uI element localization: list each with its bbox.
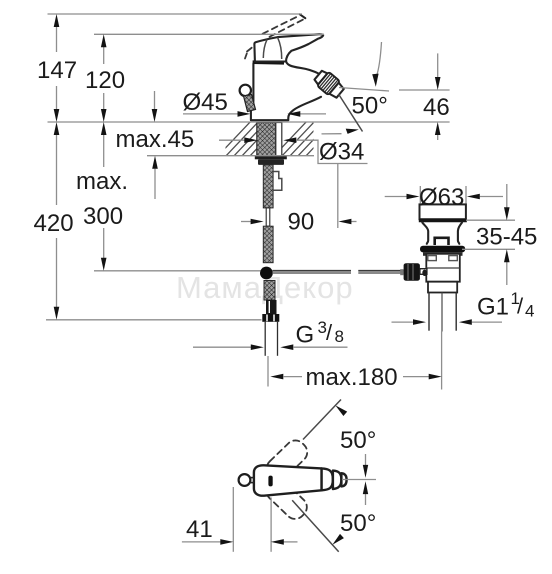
rod clamp nut — [404, 263, 420, 281]
svg-text:G: G — [296, 322, 315, 349]
dimension 90 — [241, 209, 357, 236]
cartridge collar — [253, 60, 284, 64]
svg-text:90: 90 — [288, 209, 315, 236]
svg-text:/: / — [517, 294, 524, 319]
shank smooth side — [276, 123, 282, 156]
knob shaft — [244, 95, 256, 112]
counter hatch left — [216, 120, 292, 158]
svg-text:50°: 50° — [340, 510, 376, 537]
counter bottom line — [147, 155, 314, 157]
35-45 bottom ref line — [462, 248, 515, 250]
textured rod section — [263, 226, 273, 263]
threaded shank below counter — [257, 123, 276, 156]
svg-text:8: 8 — [335, 327, 344, 346]
pivot pin into valve — [420, 269, 427, 275]
pop-up rod thin section — [266, 208, 270, 226]
handle top view body — [254, 465, 322, 495]
svg-text:35-45: 35-45 — [476, 224, 537, 251]
dimension max.45 — [116, 91, 258, 199]
dimension G1 1/4 — [392, 289, 535, 325]
dimension 50 deg (aerator) — [322, 42, 388, 134]
valve sub-band — [423, 252, 463, 255]
linkage rod left segment — [273, 271, 352, 274]
pop-up knob — [240, 85, 251, 96]
valve lower ring — [428, 282, 457, 293]
50deg lower diagonal — [292, 500, 339, 552]
lever handle — [254, 34, 323, 61]
svg-text:300: 300 — [83, 203, 123, 230]
dimension max.300 — [76, 122, 128, 271]
dimension 420 — [34, 122, 74, 320]
svg-text:/: / — [326, 320, 333, 345]
svg-text:420: 420 — [34, 210, 74, 237]
counter hatch right — [272, 120, 348, 158]
mounting washer — [255, 156, 287, 160]
linkage ball joint — [260, 267, 273, 280]
dimension Ø34 leader — [283, 137, 367, 228]
knob top view — [239, 474, 251, 486]
hose end nut G3/8 — [262, 314, 279, 322]
faucet body — [251, 64, 321, 121]
axis small arrow lower — [365, 494, 367, 506]
svg-text:41: 41 — [186, 516, 213, 543]
svg-text:G1: G1 — [477, 294, 509, 321]
handle end band 3 — [341, 473, 346, 486]
valve tailpiece — [428, 293, 430, 331]
svg-text:50°: 50° — [340, 427, 376, 454]
reference line (120 upper ref) — [94, 33, 324, 35]
axis line right — [342, 479, 376, 481]
braided hose upper — [263, 165, 273, 208]
dimension max.180 — [268, 332, 442, 392]
reference line top (147 upper ref) — [48, 13, 303, 15]
dimension 120 — [85, 34, 125, 122]
svg-text:Ø34: Ø34 — [319, 139, 364, 166]
dimension 41 — [182, 487, 298, 552]
hose side fitting — [273, 172, 282, 191]
lever raised dashed — [245, 14, 305, 58]
valve seal flange — [420, 246, 465, 253]
46 top ref line — [399, 89, 450, 91]
mounting nut — [258, 159, 284, 165]
dimension Ø63 — [385, 184, 503, 211]
countertop line — [48, 121, 450, 123]
aerator — [313, 68, 347, 100]
dimension Ø45 — [183, 89, 327, 117]
hose connector dark — [266, 300, 277, 314]
svg-text:max.180: max.180 — [306, 364, 398, 391]
aerator axis ref line — [339, 88, 389, 92]
dashed handle rotated down — [262, 475, 311, 523]
svg-text:max.: max. — [76, 168, 128, 195]
svg-text:Ø63: Ø63 — [419, 184, 464, 211]
axis small arrow upper — [365, 454, 367, 466]
cap bottom thick edge — [419, 219, 467, 222]
svg-text:120: 120 — [85, 67, 125, 94]
handle end band 1 — [322, 468, 333, 490]
svg-text:4: 4 — [525, 302, 534, 321]
50deg upper diagonal — [303, 400, 341, 440]
svg-text:46: 46 — [423, 94, 450, 121]
max300 bottom ref line — [94, 270, 261, 272]
35-45 top ref line — [466, 219, 515, 221]
linkage rod right segment — [358, 271, 405, 274]
dashed handle rotated up — [263, 436, 312, 484]
valve top tab — [435, 238, 449, 245]
dimension G3/8 — [193, 318, 348, 350]
handle black tick — [268, 476, 272, 487]
handle end band 2 — [333, 471, 342, 489]
lever face creases — [278, 37, 282, 59]
pop-up waste cap — [420, 204, 466, 219]
420 bottom ref line (hose level) — [46, 319, 262, 321]
clamp end cap — [400, 269, 403, 275]
svg-text:50°: 50° — [352, 93, 388, 120]
dimension 35-45 — [476, 184, 537, 285]
svg-text:max.45: max.45 — [116, 126, 195, 153]
svg-text:Ø45: Ø45 — [183, 89, 228, 116]
valve neck shoulders — [422, 223, 428, 244]
valve body — [426, 254, 460, 282]
body slots — [428, 256, 437, 261]
spout top curve — [286, 61, 320, 75]
svg-text:147: 147 — [37, 57, 77, 84]
spring below joint — [264, 281, 275, 301]
dimension 46 — [423, 53, 450, 140]
tail centerline — [441, 293, 443, 332]
dimension 147 — [37, 14, 77, 122]
hose tail tube — [264, 322, 266, 356]
